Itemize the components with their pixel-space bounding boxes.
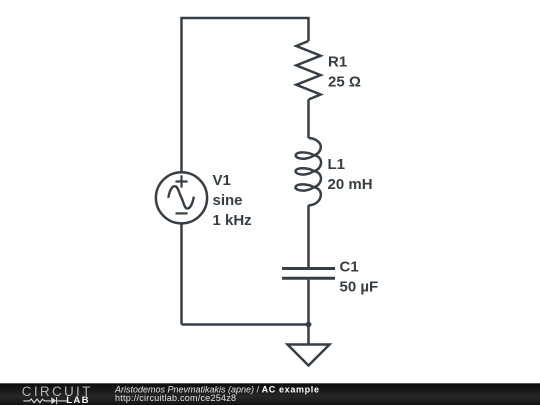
- wire inductor to capacitor: [307, 205, 310, 267]
- svg-text:50 µF: 50 µF: [340, 278, 379, 295]
- svg-text:25 Ω: 25 Ω: [328, 74, 361, 91]
- capacitor C1 plates: [282, 267, 335, 270]
- wire capacitor to junction: [307, 280, 310, 325]
- svg-text:R1: R1: [328, 54, 347, 71]
- V1 sine wave: [168, 186, 194, 208]
- svg-text:sine: sine: [213, 192, 243, 209]
- svg-text:V1: V1: [213, 172, 231, 189]
- ground symbol: [288, 345, 330, 366]
- bottom wire: [182, 323, 309, 326]
- svg-text:C1: C1: [340, 258, 359, 275]
- resistor R1: [296, 41, 320, 100]
- svg-text:LAB: LAB: [66, 395, 90, 405]
- svg-text:20 mH: 20 mH: [328, 176, 373, 193]
- footer logo waveform: [23, 397, 67, 404]
- svg-text:http://circuitlab.com/ce254z8: http://circuitlab.com/ce254z8: [115, 393, 236, 403]
- inductor L1: [295, 138, 321, 205]
- V1 wire below to bottom rail: [180, 223, 183, 324]
- junction node: [306, 322, 312, 328]
- svg-text:1 kHz: 1 kHz: [213, 212, 252, 229]
- svg-text:L1: L1: [328, 156, 346, 173]
- voltage source V1 circle: [156, 172, 207, 223]
- footer bar: [0, 383, 540, 405]
- wire resistor to inductor: [307, 100, 310, 139]
- footer logo diode: [51, 397, 56, 404]
- wire junction to ground: [307, 325, 310, 345]
- wire top-left loop: left rail up, top rail, right lead down: [182, 18, 309, 172]
- V1 minus sign: [176, 212, 188, 214]
- V1 plus sign: [176, 175, 188, 187]
